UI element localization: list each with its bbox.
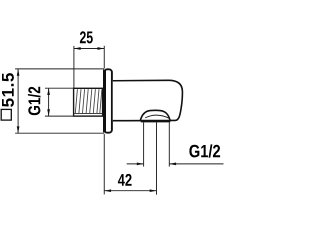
label square 51.5: digits [2,73,14,107]
label 42 [118,174,132,186]
threaded inlet nipple G1/2 (hatched) [74,88,103,116]
outlet pipe left edge / extension line [143,122,145,166]
dimension 25 (projection) [74,46,104,88]
outlet pipe right edge / extension line [168,122,170,166]
dimension 42 (wall to outlet axis) [104,134,156,195]
flange thick wall-side edge [103,70,106,133]
dimension G1/2 (inlet thread) [45,88,103,116]
label square 51.5: square symbol [1,109,11,120]
label 25 [80,31,93,43]
dimension square 51.5 (flange) [15,69,104,133]
bell mouth inner rim arc [145,115,169,118]
arrow to outlet left edge [137,163,144,166]
dimension G1/2 (outlet) leader lines [127,163,224,165]
outlet centre line [156,122,158,194]
arrow to outlet right edge [169,163,176,166]
outlet shoulder line [141,121,170,123]
wall flange (escutcheon, side view) [104,69,112,132]
outlet bell (dome over outlet) [140,110,170,120]
elbow body tube [113,80,183,120]
